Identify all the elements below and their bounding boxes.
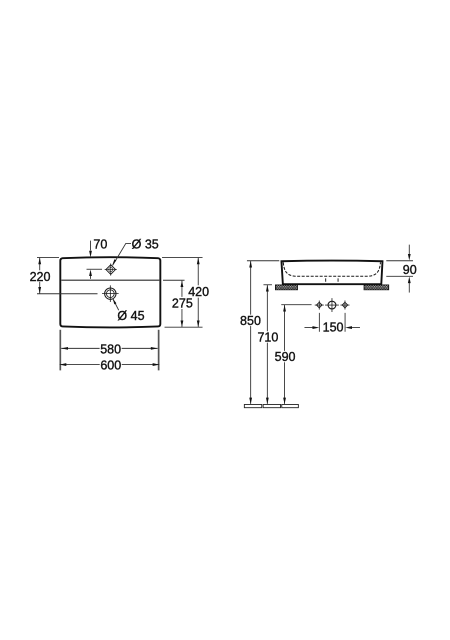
basin outline plan view [60,257,160,327]
dimension 600 [60,364,160,366]
svg-text:710: 710 [257,331,278,345]
bottom extension lines [60,330,158,371]
label D35 with leader [113,243,131,265]
dimension 420 (right side) [162,257,203,327]
faucet hole (plan) [105,263,117,275]
svg-text:90: 90 [403,263,417,277]
dimension 275 (inner edge to front) [163,280,185,327]
basin inner profile dashed [283,262,380,276]
dimension 220 (left side) [37,257,98,293]
dimension 90 (basin depth) [386,245,413,293]
svg-text:Ø 35: Ø 35 [132,237,159,251]
svg-text:590: 590 [275,350,296,364]
svg-text:150: 150 [323,320,344,334]
dimension 150 (hole spacing) [304,313,360,332]
svg-text:Ø 45: Ø 45 [117,309,144,323]
label D45 with leader [113,299,119,311]
drain hole (plan) [102,285,119,302]
dimension 70 (rim to faucet centre) [87,241,103,279]
countertop left section hatched [275,285,297,290]
dimension 850 (floor to rim) [247,261,279,404]
basin outline elevation [281,261,382,285]
svg-text:275: 275 [172,297,193,311]
drain marks elevation [325,278,327,281]
tap hole group elevation [315,298,350,312]
dimension 590 (floor to tap holes) [281,305,311,404]
basin inner back edge line [61,279,159,281]
svg-text:70: 70 [93,238,107,252]
dimension 580 [61,347,157,349]
svg-text:580: 580 [100,342,121,356]
svg-text:220: 220 [30,270,51,284]
svg-text:600: 600 [100,358,121,372]
dimension 710 (floor to countertop) [263,285,272,404]
countertop right section hatched [364,285,389,290]
floor line segments [244,404,298,407]
svg-text:850: 850 [240,314,261,328]
